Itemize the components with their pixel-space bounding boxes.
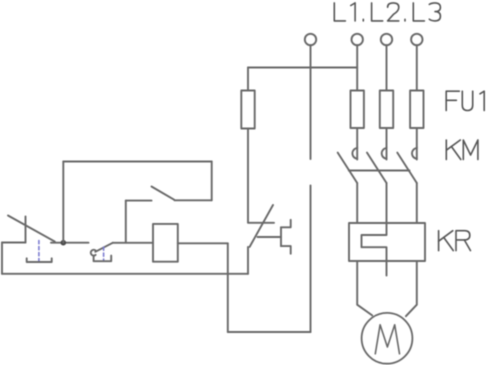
thermal relay KR box <box>349 223 425 261</box>
motor M <box>362 313 413 364</box>
label FU1 <box>446 91 484 110</box>
KM linkage bar <box>349 170 410 172</box>
wire L2 drop to fuse <box>386 45 388 90</box>
wire fuse2 to KM <box>386 128 388 147</box>
wire KR to motor left <box>357 261 372 315</box>
terminal L3 <box>411 34 422 45</box>
contactor coil KM <box>153 224 178 262</box>
fuse FU2 control <box>241 91 254 129</box>
terminal L1 <box>352 34 363 45</box>
wire L1 drop to fuse <box>356 45 358 90</box>
wire control riser bottom <box>310 186 312 333</box>
start pushbutton SB2 <box>91 243 113 256</box>
contactor KM main contact 3 <box>397 147 417 183</box>
wire KM2 to KR box <box>386 183 388 223</box>
label L1.L2.L3 <box>334 3 440 21</box>
wire start to coil <box>113 242 153 244</box>
wire control fuse stem <box>247 68 249 91</box>
KR heater element <box>362 223 387 261</box>
wire fuse1 to KM <box>356 128 358 147</box>
fuse FU1 phase 1 <box>351 91 364 129</box>
wire junction riser <box>62 162 64 243</box>
KR NC contact <box>248 205 274 247</box>
wire coil out <box>178 242 228 244</box>
fuse FU1 phase 2 <box>380 91 393 129</box>
start button actuator <box>94 247 112 261</box>
wire control fuse to KR contact <box>247 129 249 223</box>
stop button actuator <box>27 241 52 263</box>
fuse FU1 phase 3 <box>410 91 423 129</box>
contactor KM main contact 2 <box>367 147 387 183</box>
wire control riser top <box>310 45 312 159</box>
wire coil drop <box>227 243 229 332</box>
wire bottom rail <box>2 273 248 275</box>
KR heater tail <box>386 261 388 276</box>
wire fuse3 to KM <box>416 128 418 147</box>
wire KR to motor right <box>406 261 417 316</box>
KR release symbol <box>281 220 291 254</box>
wire KM3 to KR box <box>416 183 418 223</box>
terminal control neutral <box>305 34 316 45</box>
wire stop to start <box>51 242 89 244</box>
KR trip linkage <box>258 236 282 238</box>
wire left edge <box>1 243 3 274</box>
label KM <box>446 140 478 160</box>
wire top run <box>63 161 211 163</box>
node junction dot <box>61 240 67 246</box>
KR contact to bottom rail <box>247 247 249 274</box>
wire KM1 to KR box <box>356 183 358 223</box>
wire aux drop left <box>125 201 127 243</box>
terminal L2 <box>381 34 392 45</box>
wire control branch from L1 <box>248 67 357 69</box>
wire L3 drop to fuse <box>416 45 418 90</box>
contactor KM main contact 1 <box>338 147 358 183</box>
stop pushbutton SB1 <box>2 216 55 243</box>
wire bottom run to riser <box>228 331 311 333</box>
label KR <box>439 231 471 251</box>
wire aux drop right <box>211 162 213 201</box>
KM auxiliary contact <box>126 187 212 201</box>
